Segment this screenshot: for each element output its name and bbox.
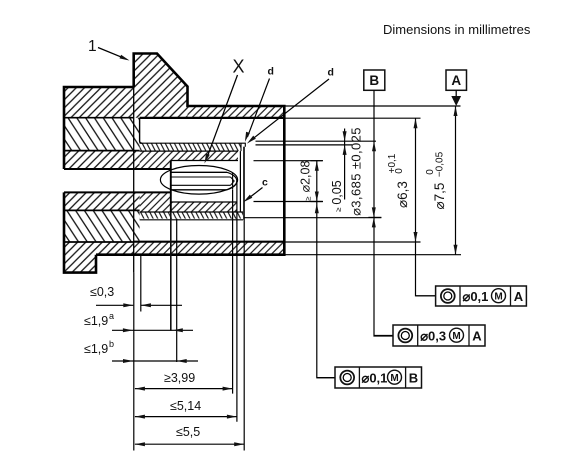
cavity bottom edge: [134, 241, 285, 243]
band D hatch: [64, 192, 140, 210]
band boundary B/C: [64, 150, 140, 152]
insulator bottom wall hatch: [140, 212, 243, 219]
svg-text:⌀7,5: ⌀7,5: [432, 183, 447, 210]
svg-text:≥3,99: ≥3,99: [164, 371, 195, 385]
svg-text:1: 1: [88, 38, 97, 55]
insulator bottom clearance edge: [171, 201, 237, 203]
dim phi7,5 line: [455, 106, 457, 255]
band boundary D/E: [64, 209, 140, 211]
svg-text:d: d: [328, 67, 334, 79]
svg-text:A: A: [472, 328, 482, 343]
contact tip inner chamfer: [231, 177, 235, 185]
svg-text:B: B: [409, 370, 418, 385]
leader X: [207, 75, 238, 158]
svg-text:A: A: [451, 73, 461, 88]
contour line x=133.7: [133, 87, 135, 273]
ext vertical x244.2: [243, 147, 245, 451]
contact face line: [170, 161, 172, 213]
svg-text:≥: ≥: [334, 207, 343, 212]
insulator top wall hatch: [140, 143, 241, 151]
svg-text:X: X: [233, 57, 245, 77]
FCF2 frame: [393, 325, 485, 346]
dim phi3,685 / datum B line: [374, 90, 393, 336]
leader c: [247, 188, 263, 200]
svg-text:⌀2,08: ⌀2,08: [299, 161, 313, 193]
contact slot end tick: [232, 173, 234, 190]
ext vertical x140.8: [140, 256, 142, 312]
insulator top wall outline: [140, 143, 241, 151]
contact outer top line: [171, 171, 227, 173]
svg-text:⌀3,685 ±0,025: ⌀3,685 ±0,025: [349, 127, 364, 216]
band F flange foot hatch: [64, 242, 134, 273]
FCF2 concentricity symbol: [398, 329, 412, 343]
band B hatch: [64, 118, 134, 151]
FCF1 leader: [416, 295, 436, 297]
ext vertical x176.7: [176, 219, 178, 362]
ext line y160.7 (phi2,08 top): [254, 160, 323, 162]
FCF3 frame: [335, 367, 422, 388]
ext vertical x133.8: [133, 273, 135, 451]
notch left edge: [140, 118, 142, 143]
dim phi2,08 line: [311, 161, 336, 378]
bore bottom line: [64, 191, 171, 193]
insulator bottom body hatch: [140, 192, 237, 211]
body flange band A hatch: [64, 87, 134, 118]
insulator top body hatch: [140, 151, 238, 169]
ext double line y144.9: [256, 144, 353, 146]
ext vertical x232.6: [232, 190, 234, 394]
svg-text:M: M: [494, 291, 502, 302]
ext line y106 (A / phi7,5 top): [286, 105, 461, 107]
leader 1: [98, 48, 127, 60]
svg-text:≤5,14: ≤5,14: [170, 399, 201, 413]
insulator bottom wall outline: [140, 212, 243, 220]
svg-text:≤5,5: ≤5,5: [176, 425, 200, 439]
body outline: [64, 54, 284, 273]
svg-text:a: a: [109, 311, 114, 321]
trapezoid block hatch: [134, 54, 188, 118]
FCF3 concentricity symbol: [340, 371, 354, 385]
contact bore bottom line: [171, 184, 231, 186]
svg-text:−0,05: −0,05: [434, 151, 445, 177]
ext vertical x236.9: [236, 181, 238, 422]
svg-text:⌀0,1: ⌀0,1: [463, 289, 489, 304]
svg-text:0,05: 0,05: [330, 180, 344, 204]
FCF3 leader: [317, 377, 335, 379]
FCF2 leader: [374, 335, 393, 337]
dim phi6,3 line: [416, 118, 436, 296]
leader d2: [252, 79, 330, 140]
insulator front face lines: [240, 147, 243, 220]
dim >=0,05 line: [344, 129, 346, 200]
FCF1 frame: [436, 286, 527, 306]
svg-text:⌀0,3: ⌀0,3: [420, 328, 446, 343]
svg-text:b: b: [109, 339, 114, 349]
insulator top lip: [241, 143, 245, 151]
top outer strip hatch: [188, 106, 285, 118]
svg-text:⌀6,3: ⌀6,3: [395, 181, 410, 208]
band C hatch: [64, 151, 140, 169]
svg-text:≤0,3: ≤0,3: [90, 285, 114, 299]
band E hatch: [64, 210, 140, 242]
svg-text:0: 0: [425, 169, 436, 175]
ext line y118.2 (phi6,3 top): [286, 117, 421, 119]
ext line y254.7 (phi7,5 bottom): [286, 254, 462, 256]
svg-text:A: A: [514, 289, 524, 304]
band boundary A/B: [64, 117, 134, 119]
svg-text:⌀0,1: ⌀0,1: [362, 370, 388, 385]
leader d1: [248, 79, 270, 137]
contact tip outer curve: [227, 172, 237, 190]
bottom outer strip hatch: [134, 242, 285, 255]
svg-text:d: d: [268, 66, 274, 78]
datum B box: [364, 70, 385, 90]
svg-text:M: M: [390, 373, 398, 384]
bore top line: [64, 168, 171, 170]
ext double line y141.2: [256, 140, 377, 142]
band boundary E/F: [64, 241, 134, 243]
ext vertical x170.8: [170, 212, 172, 331]
band B sliver hatch: [134, 118, 140, 151]
cavity top edge: [140, 117, 285, 119]
svg-text:Dimensions in millimetres: Dimensions in millimetres: [383, 22, 531, 37]
contact bore top line: [171, 176, 231, 178]
detail ellipse X: [160, 166, 237, 195]
datum A triangle: [455, 90, 457, 96]
svg-text:c: c: [262, 177, 268, 189]
svg-text:0: 0: [394, 168, 405, 174]
svg-text:≤1,9: ≤1,9: [84, 342, 108, 356]
FCF1 concentricity symbol: [441, 289, 455, 303]
insulator bore top edge: [171, 160, 238, 162]
svg-text:≥: ≥: [303, 196, 312, 201]
contact outer bottom line: [171, 189, 227, 191]
datum A box: [446, 70, 467, 90]
ext line y201.5 (phi2,08 bottom): [254, 201, 323, 203]
ext line y242 (phi6,3 bottom): [286, 241, 421, 243]
svg-text:B: B: [369, 73, 379, 88]
svg-text:M: M: [452, 331, 460, 342]
svg-text:≤1,9: ≤1,9: [84, 314, 108, 328]
